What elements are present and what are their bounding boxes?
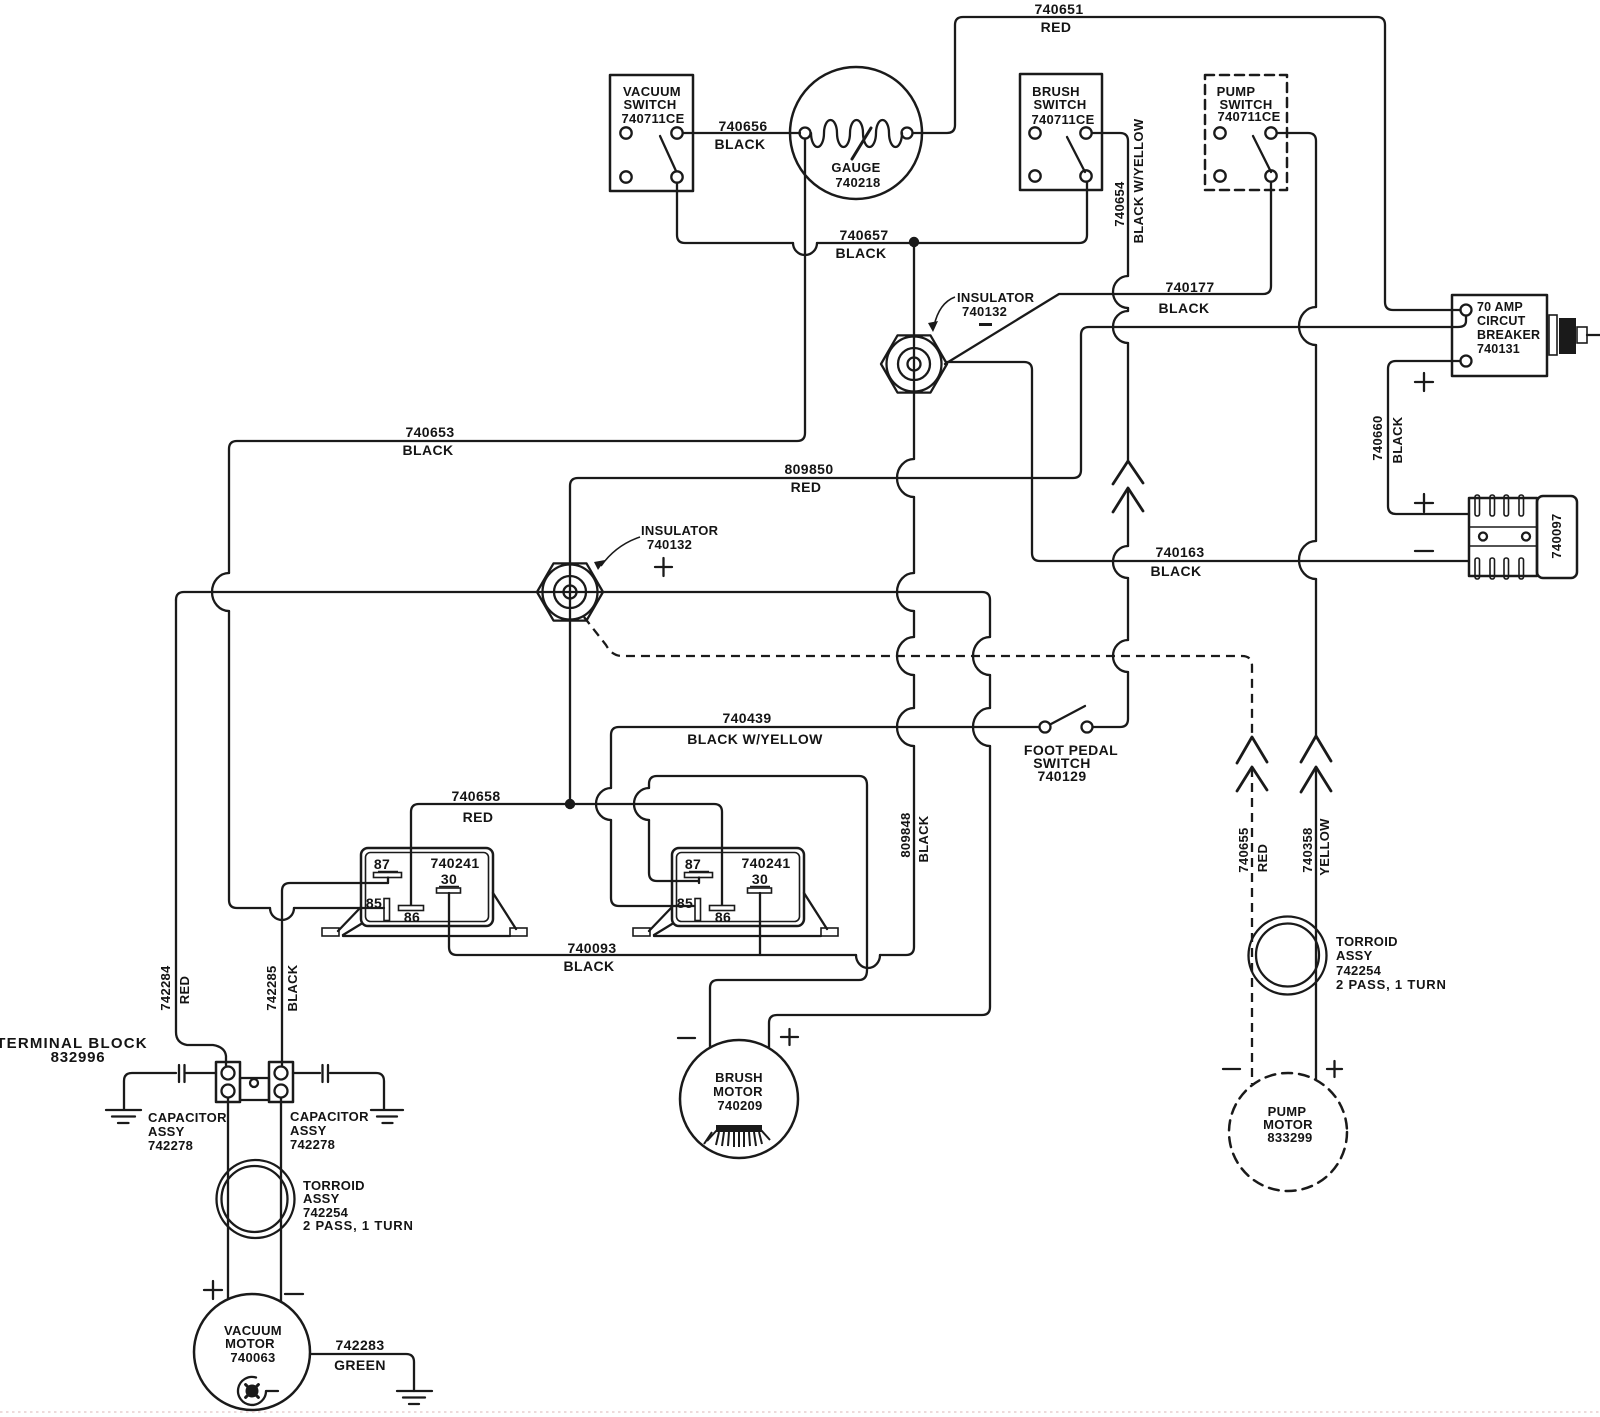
svg-text:BLACK: BLACK — [1159, 300, 1210, 316]
svg-text:740660: 740660 — [1370, 415, 1385, 460]
svg-text:742283: 742283 — [335, 1337, 384, 1353]
svg-text:ASSY: ASSY — [303, 1191, 340, 1206]
svg-text:740711CE: 740711CE — [621, 111, 684, 126]
svg-text:RED: RED — [463, 809, 494, 825]
svg-text:CAPACITOR: CAPACITOR — [148, 1110, 227, 1125]
svg-text:742278: 742278 — [290, 1137, 335, 1152]
svg-text:CIRCUT: CIRCUT — [1477, 314, 1526, 328]
svg-text:742284: 742284 — [158, 965, 173, 1011]
svg-text:740063: 740063 — [230, 1350, 275, 1365]
svg-text:CAPACITOR: CAPACITOR — [290, 1109, 369, 1124]
svg-text:740439: 740439 — [722, 710, 771, 726]
svg-text:BLACK W/YELLOW: BLACK W/YELLOW — [1131, 118, 1146, 243]
svg-text:ASSY: ASSY — [1336, 948, 1373, 963]
svg-text:740657: 740657 — [839, 227, 888, 243]
svg-text:809850: 809850 — [784, 461, 833, 477]
svg-text:BLACK: BLACK — [1151, 563, 1202, 579]
svg-text:86: 86 — [404, 909, 420, 925]
svg-text:740209: 740209 — [717, 1098, 762, 1113]
svg-text:MOTOR: MOTOR — [713, 1084, 763, 1099]
svg-text:BLACK: BLACK — [916, 815, 931, 862]
svg-text:740097: 740097 — [1549, 513, 1564, 558]
svg-text:740129: 740129 — [1037, 768, 1086, 784]
svg-text:740655: 740655 — [1236, 827, 1251, 872]
svg-text:BRUSH: BRUSH — [715, 1070, 763, 1085]
svg-text:86: 86 — [715, 909, 731, 925]
svg-text:740654: 740654 — [1112, 181, 1127, 227]
svg-text:740241: 740241 — [430, 855, 479, 871]
svg-text:740711CE: 740711CE — [1217, 109, 1280, 124]
svg-text:70 AMP: 70 AMP — [1477, 300, 1523, 314]
svg-text:RED: RED — [1041, 19, 1072, 35]
svg-text:740656: 740656 — [718, 118, 767, 134]
svg-text:2 PASS, 1 TURN: 2 PASS, 1 TURN — [303, 1218, 414, 1233]
svg-text:BLACK: BLACK — [564, 958, 615, 974]
svg-text:740177: 740177 — [1165, 279, 1214, 295]
svg-text:742278: 742278 — [148, 1138, 193, 1153]
svg-text:MOTOR: MOTOR — [225, 1336, 275, 1351]
svg-text:BLACK W/YELLOW: BLACK W/YELLOW — [687, 731, 823, 747]
svg-text:YELLOW: YELLOW — [1317, 818, 1332, 876]
svg-text:740132: 740132 — [647, 537, 692, 552]
svg-text:BREAKER: BREAKER — [1477, 328, 1540, 342]
svg-text:832996: 832996 — [51, 1049, 106, 1066]
svg-text:ASSY: ASSY — [148, 1124, 185, 1139]
svg-text:809848: 809848 — [898, 812, 913, 857]
svg-text:SWITCH: SWITCH — [1033, 97, 1086, 112]
svg-text:742285: 742285 — [264, 965, 279, 1010]
svg-text:INSULATOR: INSULATOR — [957, 290, 1035, 305]
svg-text:740658: 740658 — [451, 788, 500, 804]
svg-text:740653: 740653 — [405, 424, 454, 440]
svg-text:GREEN: GREEN — [334, 1357, 386, 1373]
svg-text:740711CE: 740711CE — [1031, 112, 1094, 127]
svg-text:740093: 740093 — [567, 940, 616, 956]
svg-text:87: 87 — [685, 856, 701, 872]
svg-text:BLACK: BLACK — [715, 136, 766, 152]
svg-text:87: 87 — [374, 856, 390, 872]
svg-text:30: 30 — [441, 871, 457, 887]
svg-text:30: 30 — [752, 871, 768, 887]
svg-text:740132: 740132 — [962, 304, 1007, 319]
svg-text:RED: RED — [791, 479, 822, 495]
svg-text:740358: 740358 — [1300, 827, 1315, 872]
svg-text:85: 85 — [366, 895, 382, 911]
svg-text:740651: 740651 — [1034, 1, 1083, 17]
svg-text:833299: 833299 — [1267, 1130, 1312, 1145]
svg-text:GAUGE: GAUGE — [831, 160, 880, 175]
svg-text:BLACK: BLACK — [836, 245, 887, 261]
svg-text:INSULATOR: INSULATOR — [641, 523, 719, 538]
svg-text:RED: RED — [177, 976, 192, 1004]
svg-text:ASSY: ASSY — [290, 1123, 327, 1138]
svg-text:RED: RED — [1255, 844, 1270, 872]
svg-text:BLACK: BLACK — [285, 964, 300, 1011]
svg-text:SWITCH: SWITCH — [623, 97, 676, 112]
svg-text:740163: 740163 — [1155, 544, 1204, 560]
svg-text:85: 85 — [677, 895, 693, 911]
svg-text:740218: 740218 — [835, 175, 880, 190]
svg-text:742254: 742254 — [1336, 963, 1382, 978]
svg-text:740131: 740131 — [1477, 342, 1520, 356]
svg-text:2 PASS, 1 TURN: 2 PASS, 1 TURN — [1336, 977, 1447, 992]
svg-text:740241: 740241 — [741, 855, 790, 871]
svg-text:BLACK: BLACK — [403, 442, 454, 458]
svg-text:BLACK: BLACK — [1390, 416, 1405, 463]
svg-text:TORROID: TORROID — [1336, 934, 1398, 949]
